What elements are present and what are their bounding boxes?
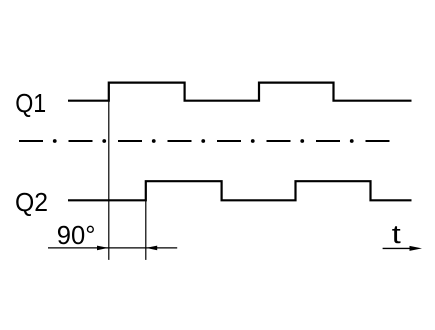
svg-text:90°: 90° (57, 222, 96, 250)
svg-text:Q2: Q2 (15, 187, 48, 217)
label Q2 (15, 187, 48, 217)
time axis arrow (383, 246, 422, 251)
label Q1 (15, 88, 46, 118)
waveform Q2 (68, 181, 412, 200)
label 90 degrees (57, 222, 96, 250)
svg-text:Q1: Q1 (15, 88, 46, 118)
label t (392, 221, 401, 249)
marker line at Q2 rising edge (145, 181, 147, 260)
dimension line (48, 247, 177, 249)
center dash-dot reference line (dashes) (19, 140, 390, 142)
waveform Q1 (68, 83, 412, 101)
dimension arrowhead left (points right at marker 1) (97, 246, 108, 251)
center dash-dot reference line (dots) (53, 139, 354, 143)
marker line at Q1 rising edge (108, 100, 110, 260)
dimension arrowhead right (points left at marker 2) (146, 246, 157, 251)
svg-text:t: t (392, 221, 401, 249)
